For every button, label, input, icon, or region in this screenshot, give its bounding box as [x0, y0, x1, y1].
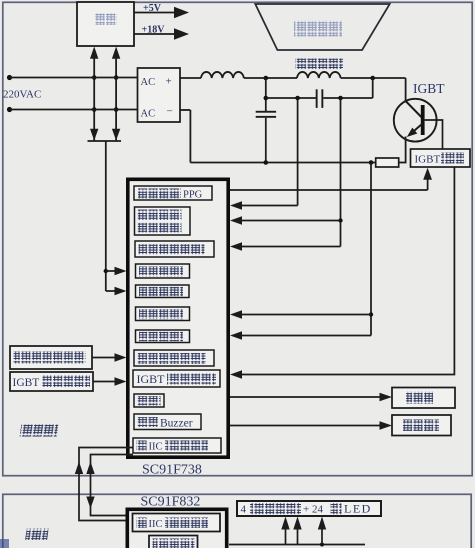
block 风扇: [134, 394, 164, 407]
wire chip to buzzer, arrow right: [230, 425, 381, 427]
current wire into chip, arrow left: [241, 314, 371, 316]
excitation coil 励磁线圈 label: [295, 59, 343, 70]
scan artifact bottom-left: [0, 539, 9, 548]
block 过压保护: [136, 285, 190, 298]
mains wire L: [10, 77, 138, 79]
panel label 面板: [25, 529, 49, 541]
220VAC terminal dot N: [7, 107, 12, 112]
svg-text:IIC: IIC: [149, 519, 163, 530]
svg-text:+18V: +18V: [142, 25, 166, 36]
svg-text:+5V: +5V: [143, 3, 162, 14]
svg-text:IIC: IIC: [149, 442, 163, 453]
node bus/C1: [264, 160, 269, 165]
svg-text:220VAC: 220VAC: [3, 89, 41, 101]
down arrowheads to sampling bar: [90, 129, 98, 141]
resonant cap line left segment: [266, 97, 316, 99]
emitter wire down to shunt: [405, 137, 407, 163]
wire: AC feed left into PS, with up arrow: [93, 57, 95, 141]
phase sample wire down: [340, 98, 342, 247]
up arrowhead on outer IIC wire: [75, 462, 83, 475]
node where cap line meets C1 lead: [264, 96, 269, 101]
IIC link inner wire: [91, 455, 134, 516]
IGBT temp sensor box IGBT温度检测: [10, 372, 93, 391]
svg-text:IGBT: IGBT: [415, 154, 441, 166]
PPG drive wire from chip: [230, 189, 428, 191]
node sync tap: [295, 96, 300, 101]
svg-text:−: −: [167, 106, 173, 118]
sync wire into chip, arrow left: [241, 205, 298, 207]
voltage sample wire down to chip: [105, 141, 107, 291]
panel board outline (面板): [3, 494, 471, 548]
current sample wire down: [370, 163, 372, 336]
filter cap C1 plates: [256, 111, 276, 113]
collector diagonal: [406, 101, 422, 118]
block 类 IIC 通讯接口: [133, 438, 221, 453]
wire: AC feed right into PS, with up arrow: [115, 57, 117, 141]
AC- wire down to bus: [189, 110, 191, 163]
wire shunt to emitter: [399, 162, 407, 164]
node at filter cap tap: [264, 76, 269, 81]
node on sample wire: [104, 269, 108, 273]
node bus/shunt tap: [369, 160, 374, 165]
mains wire N: [10, 109, 138, 111]
svg-text:LED: LED: [344, 502, 372, 516]
svg-text:4: 4: [241, 504, 247, 516]
base wire to driver: [425, 120, 443, 149]
block 过流保护: [136, 330, 190, 343]
220VAC terminal dot L: [7, 75, 12, 80]
collector wire down from coil line: [405, 78, 407, 102]
driver feedback wire down: [241, 167, 454, 375]
block 电压检测: [136, 264, 190, 278]
node on display bus: [320, 543, 324, 547]
svg-text:+: +: [166, 76, 172, 88]
fan box 风扇: [392, 388, 455, 409]
wire chip to fan, arrow right: [230, 396, 381, 398]
svg-text:AC: AC: [141, 109, 156, 120]
wire sensor to chip, arrow right: [92, 357, 116, 359]
filter cap C1 top lead: [265, 78, 267, 111]
block 类 IIC 通讯接口 (panel): [133, 514, 221, 532]
+18V arrowhead: [174, 28, 189, 39]
+5V output wire: [134, 12, 176, 14]
emitter diagonal with arrow: [411, 124, 422, 134]
svg-text:SC91F832: SC91F832: [141, 495, 201, 510]
block 电流检测: [136, 307, 190, 321]
pot temp sensor box 锅底温度检测: [10, 346, 92, 369]
shunt resistor R1: [376, 158, 399, 167]
IGBT transistor Q1 circle: [394, 99, 437, 142]
resonant cap line right segment: [323, 97, 372, 99]
svg-text:+ 24: + 24: [303, 504, 323, 516]
wire into 电压检测, arrow right: [106, 270, 116, 272]
back-voltage wire into chip, arrow left: [241, 246, 341, 248]
segment wire 3 with up arrow: [321, 527, 323, 545]
block 显示驱动: [149, 536, 198, 548]
board label 功率板: [20, 425, 59, 437]
node on phase wire: [338, 218, 342, 222]
svg-text:AC: AC: [141, 77, 156, 88]
display drive bus: [229, 544, 365, 546]
svg-text:IGBT: IGBT: [413, 81, 445, 96]
svg-text:IGBT: IGBT: [137, 372, 166, 386]
wire sensor to chip, arrow right: [93, 381, 116, 383]
excitation coil L2: [297, 72, 341, 78]
DC+ wire to filter choke: [180, 77, 201, 79]
sync sample wire down: [297, 98, 299, 206]
filter choke L1: [201, 72, 244, 78]
block 报警 Buzzer: [134, 414, 201, 430]
IIC link outer wire: [79, 448, 133, 521]
resonant cap C2 plates: [316, 89, 318, 108]
block 功率控制 PPG: [134, 186, 212, 200]
segment wire 2 with up arrow: [297, 527, 299, 545]
up arrowhead on inner IIC wire: [86, 462, 94, 475]
AC- wire right: [180, 109, 190, 111]
stub down from node to resonant cap line: [372, 78, 374, 98]
overcurrent wire into chip, arrow left: [241, 335, 371, 337]
sampling bar: [88, 140, 122, 142]
bridge rectifier box AC+/AC-: [138, 68, 181, 122]
down arrowhead on inner IIC wire: [86, 497, 94, 509]
+5V arrowhead: [174, 7, 189, 18]
+18V output wire: [134, 33, 176, 35]
wire into 过压保护, arrow right: [106, 290, 116, 292]
filter cap C1 bottom lead to bus: [265, 118, 267, 163]
svg-text:PPG: PPG: [183, 190, 203, 201]
block IGBT 温度检测: [133, 370, 220, 387]
node after coil: [370, 76, 375, 81]
svg-text:SC91F738: SC91F738: [142, 463, 202, 478]
panel MCU chip SC91F832: [127, 509, 226, 548]
power supply box U-PS 电源: [77, 2, 134, 46]
buzzer box 蜂鸣器: [392, 415, 451, 436]
junction dots on mains lines: [92, 75, 97, 80]
base bar: [421, 105, 425, 135]
block 锅底温度检测: [134, 350, 214, 366]
svg-text:IGBT: IGBT: [13, 377, 40, 389]
phase wire into chip, arrow left: [241, 220, 341, 222]
IGBT driver box IGBT驱动: [411, 149, 471, 167]
display box 4位数码管+24个LED: [237, 501, 381, 516]
segment wire 1 with up arrow: [285, 527, 287, 545]
node on current wire: [369, 312, 373, 316]
main MCU chip SC91F738: [128, 179, 228, 457]
wire coil to collector corner: [341, 77, 406, 79]
node phase tap: [338, 96, 343, 101]
negative bus: [190, 162, 376, 164]
svg-text:Buzzer: Buzzer: [160, 418, 193, 430]
cooking pot 烹饪锅 trapezoid: [255, 4, 389, 50]
block 反压自动调节: [135, 241, 214, 257]
block 同步检测/移相处理: [135, 207, 191, 235]
wire choke to coil node: [244, 77, 297, 79]
